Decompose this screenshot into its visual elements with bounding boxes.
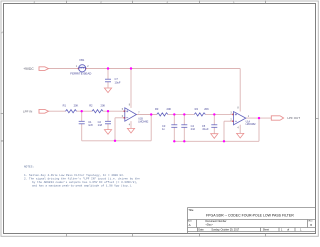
svg-text:LPF OUT: LPF OUT	[287, 116, 300, 120]
svg-text:Title: Title	[188, 208, 194, 212]
svg-text:20K: 20K	[204, 107, 209, 111]
svg-text:2. The signal driving the fil: 2. The signal driving the filter's "LPF …	[24, 176, 140, 180]
svg-text:<Doc>: <Doc>	[206, 224, 214, 227]
svg-text:20K: 20K	[167, 107, 172, 111]
svg-text:A: A	[1, 31, 3, 35]
svg-text:NOTES:: NOTES:	[24, 166, 34, 169]
svg-text:of: of	[287, 229, 289, 232]
svg-text:LMC6482: LMC6482	[138, 121, 149, 123]
svg-text:R1: R1	[63, 104, 67, 108]
svg-text:10uF: 10uF	[115, 80, 121, 84]
svg-text:LMC6482: LMC6482	[246, 124, 257, 126]
svg-text:FB1: FB1	[80, 58, 85, 62]
svg-text:R2: R2	[89, 104, 93, 108]
svg-text:+9VDC: +9VDC	[23, 67, 34, 71]
svg-text:.01uF: .01uF	[202, 127, 209, 131]
svg-text:20K: 20K	[101, 104, 106, 108]
svg-text:by the AD9834 codec's outputs: by the AD9834 codec's outputs has 1.65V …	[32, 180, 138, 184]
svg-text:FERRITE BEAD: FERRITE BEAD	[70, 72, 91, 76]
svg-text:R4: R4	[195, 107, 199, 111]
svg-text:Sunday, October 29, 2017: Sunday, October 29, 2017	[211, 229, 239, 232]
svg-text:2n0: 2n0	[191, 127, 196, 131]
svg-text:20K: 20K	[74, 104, 79, 108]
svg-text:and has a maximum peak-to-peak: and has a maximum peak-to-peak amplitude…	[32, 183, 133, 187]
svg-text:R3: R3	[155, 107, 159, 111]
svg-text:FPGA SDR -- CODEC FOUR-POLE LO: FPGA SDR -- CODEC FOUR-POLE LOW PASS FIL…	[206, 214, 294, 218]
svg-text:A: A	[189, 223, 191, 227]
svg-text:1. Sallen-Key 4-Pole Low Pass: 1. Sallen-Key 4-Pole Low Pass Filter Top…	[24, 173, 125, 177]
svg-text:LPF IN: LPF IN	[23, 109, 32, 113]
svg-text:U1B: U1B	[138, 119, 143, 121]
svg-text:1n8: 1n8	[98, 123, 103, 127]
svg-text:1n8: 1n8	[88, 123, 93, 127]
svg-text:B: B	[1, 139, 3, 143]
svg-text:Document Number: Document Number	[206, 220, 227, 223]
svg-text:Sheet: Sheet	[263, 229, 270, 232]
svg-text:Date:: Date:	[198, 229, 204, 232]
